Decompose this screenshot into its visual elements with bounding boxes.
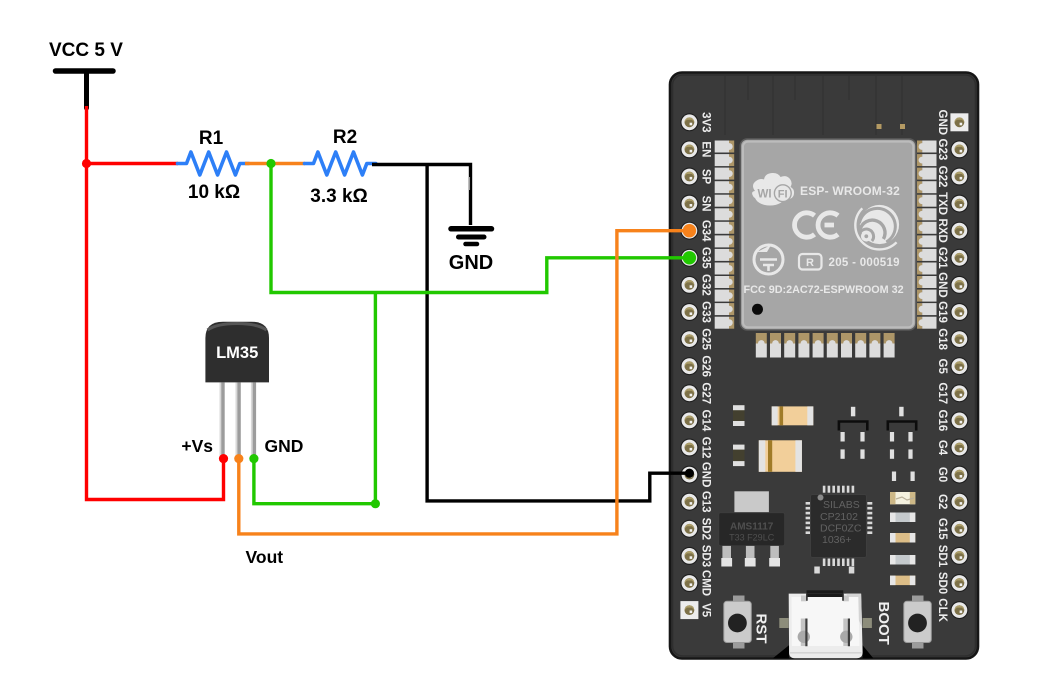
- svg-text:T33 F29LC: T33 F29LC: [729, 533, 775, 543]
- ESP-WROOM-32 module metal shield: [740, 139, 916, 330]
- small vias near USB: [814, 567, 820, 574]
- svg-text:G12: G12: [700, 437, 712, 459]
- svg-text:GND: GND: [936, 110, 948, 136]
- module pin-1 dot: [752, 304, 763, 315]
- svg-text:BOOT: BOOT: [875, 602, 892, 645]
- ground symbol: [451, 229, 492, 244]
- svg-text:LM35: LM35: [216, 344, 258, 362]
- capacitor C2 (tan): [759, 440, 802, 472]
- wire end highlight on ground stem: [468, 177, 470, 190]
- svg-text:G27: G27: [700, 382, 712, 404]
- transistor Q2: [888, 407, 916, 442]
- junction node dot green 2: [371, 499, 380, 508]
- capacitor (tan small 2): [890, 576, 915, 586]
- regulator AMS1117: [719, 491, 785, 566]
- diode D1: [733, 405, 745, 426]
- capacitor (tan small): [890, 533, 915, 543]
- svg-text:G26: G26: [700, 355, 712, 377]
- svg-text:G4: G4: [936, 440, 948, 456]
- wire green LM35 GND: [254, 293, 376, 504]
- svg-text:AMS1117: AMS1117: [730, 522, 774, 533]
- transistor LM35 (TO-92): [205, 322, 269, 457]
- pin node GND (green): [249, 454, 258, 463]
- resistor R2: [305, 152, 376, 175]
- wire red to R1: [87, 162, 179, 165]
- svg-text:G5: G5: [936, 359, 948, 375]
- resistor pads under Q1: [841, 449, 865, 458]
- svg-text:R1: R1: [199, 128, 224, 149]
- resistor R (gray): [890, 513, 915, 523]
- diode D2: [733, 445, 745, 467]
- svg-text:GND: GND: [449, 252, 493, 274]
- svg-text:G25: G25: [700, 328, 712, 350]
- resistor (gray small): [890, 555, 915, 565]
- pin node +Vs (red): [219, 454, 228, 463]
- Espressif WiFi logo on module: [752, 173, 794, 206]
- svg-text:G32: G32: [700, 274, 712, 296]
- resistor R1: [178, 152, 249, 175]
- svg-text:FI: FI: [778, 189, 788, 201]
- LED (white/tan): [890, 492, 915, 504]
- svg-text:DCF0ZC: DCF0ZC: [820, 523, 862, 535]
- svg-text:G19: G19: [936, 301, 948, 323]
- pin labels right column: [936, 110, 948, 623]
- svg-text:G15: G15: [936, 518, 948, 540]
- transistor Q1: [839, 407, 867, 442]
- svg-text:G18: G18: [936, 328, 948, 350]
- svg-text:G13: G13: [700, 491, 712, 513]
- svg-text:G23: G23: [936, 139, 948, 161]
- wire orange LM35 Vout to G34: [239, 231, 689, 534]
- svg-text:205 - 000519: 205 - 000519: [829, 257, 900, 269]
- wire red VCC down: [87, 106, 224, 500]
- svg-text:SN: SN: [700, 196, 712, 212]
- pin node Vout (orange): [234, 454, 243, 463]
- svg-text:SD1: SD1: [936, 545, 948, 568]
- svg-text:V5: V5: [700, 603, 712, 618]
- svg-text:SD3: SD3: [700, 545, 712, 567]
- svg-text:VCC 5 V: VCC 5 V: [49, 40, 123, 61]
- svg-text:G14: G14: [700, 410, 712, 432]
- svg-text:CMD: CMD: [700, 570, 712, 596]
- BOOT button: [904, 596, 932, 649]
- svg-text:SILABS: SILABS: [823, 499, 860, 511]
- svg-text:RXD: RXD: [936, 219, 948, 243]
- capacitor C1 (tan): [772, 406, 814, 425]
- svg-text:EN: EN: [700, 141, 712, 157]
- svg-text:GND: GND: [936, 272, 948, 298]
- PCB antenna traces (faint): [725, 76, 902, 135]
- svg-text:Vout: Vout: [246, 547, 284, 567]
- svg-text:1036+: 1036+: [822, 534, 852, 546]
- pin header holes right column: [950, 113, 968, 619]
- CE mark on module: [795, 213, 838, 237]
- wire orange R1 to R2: [245, 162, 305, 165]
- ESP-WROOM-32 module castellated pads left column: [715, 141, 735, 329]
- Giteki certification mark on module: [754, 245, 783, 274]
- svg-text:3.3 kΩ: 3.3 kΩ: [310, 186, 368, 207]
- svg-text:G22: G22: [936, 166, 948, 188]
- svg-text:SD0: SD0: [936, 572, 948, 594]
- node dot orange at G34: [683, 224, 696, 237]
- svg-text:SD2: SD2: [700, 518, 712, 540]
- svg-text:R: R: [806, 257, 814, 269]
- svg-text:RST: RST: [753, 614, 770, 644]
- junction node dot green: [266, 159, 275, 168]
- resistor pads column right: [892, 472, 915, 482]
- ESP32 dev board PCB: [670, 73, 978, 659]
- svg-text:GND: GND: [265, 436, 304, 456]
- svg-text:WI: WI: [758, 189, 772, 201]
- svg-text:ESP- WROOM-32: ESP- WROOM-32: [800, 184, 900, 198]
- svg-text:R2: R2: [333, 127, 357, 148]
- svg-text:G34: G34: [700, 220, 712, 242]
- vias top right of module: [877, 124, 882, 129]
- svg-text:SP: SP: [700, 169, 712, 185]
- ESP-WROOM-32 module castellated pads right column: [917, 141, 937, 329]
- svg-text:3V3: 3V3: [700, 112, 712, 132]
- wire green divider tap to G35: [271, 164, 689, 293]
- svg-text:CLK: CLK: [936, 598, 948, 622]
- pin labels left column: [700, 112, 712, 618]
- svg-text:FCC 9D:2AC72-ESPWROOM 32: FCC 9D:2AC72-ESPWROOM 32: [744, 284, 904, 296]
- svg-text:G33: G33: [700, 301, 712, 323]
- pin header holes left column: [680, 113, 698, 619]
- node dot green at G35: [683, 251, 696, 264]
- junction node dot red: [82, 159, 91, 168]
- wire black R2 to ground: [372, 165, 471, 226]
- wire black down to ESP32 GND pin: [427, 165, 689, 501]
- USB-UART chip CP2102: [806, 486, 873, 566]
- svg-text:GND: GND: [700, 462, 712, 488]
- svg-text:CP2102: CP2102: [820, 511, 858, 523]
- node dot black at GND pin: [685, 469, 694, 478]
- micro-USB connector: [773, 590, 873, 658]
- svg-text:G21: G21: [936, 247, 948, 269]
- R-mark box on module: [799, 254, 822, 270]
- svg-text:G16: G16: [936, 410, 948, 432]
- RST button: [724, 596, 752, 649]
- svg-text:G2: G2: [936, 494, 948, 509]
- svg-text:10 kΩ: 10 kΩ: [188, 182, 240, 203]
- svg-text:TXD: TXD: [936, 192, 948, 215]
- VCC power symbol: [56, 71, 114, 108]
- svg-text:G0: G0: [936, 467, 948, 482]
- Espressif swirl logo on module: [855, 205, 899, 250]
- svg-text:+Vs: +Vs: [181, 436, 213, 456]
- svg-text:G35: G35: [700, 247, 712, 269]
- resistor pads under Q2: [890, 449, 913, 458]
- ESP-WROOM-32 module bottom pads row: [756, 333, 895, 358]
- svg-text:G17: G17: [936, 382, 948, 404]
